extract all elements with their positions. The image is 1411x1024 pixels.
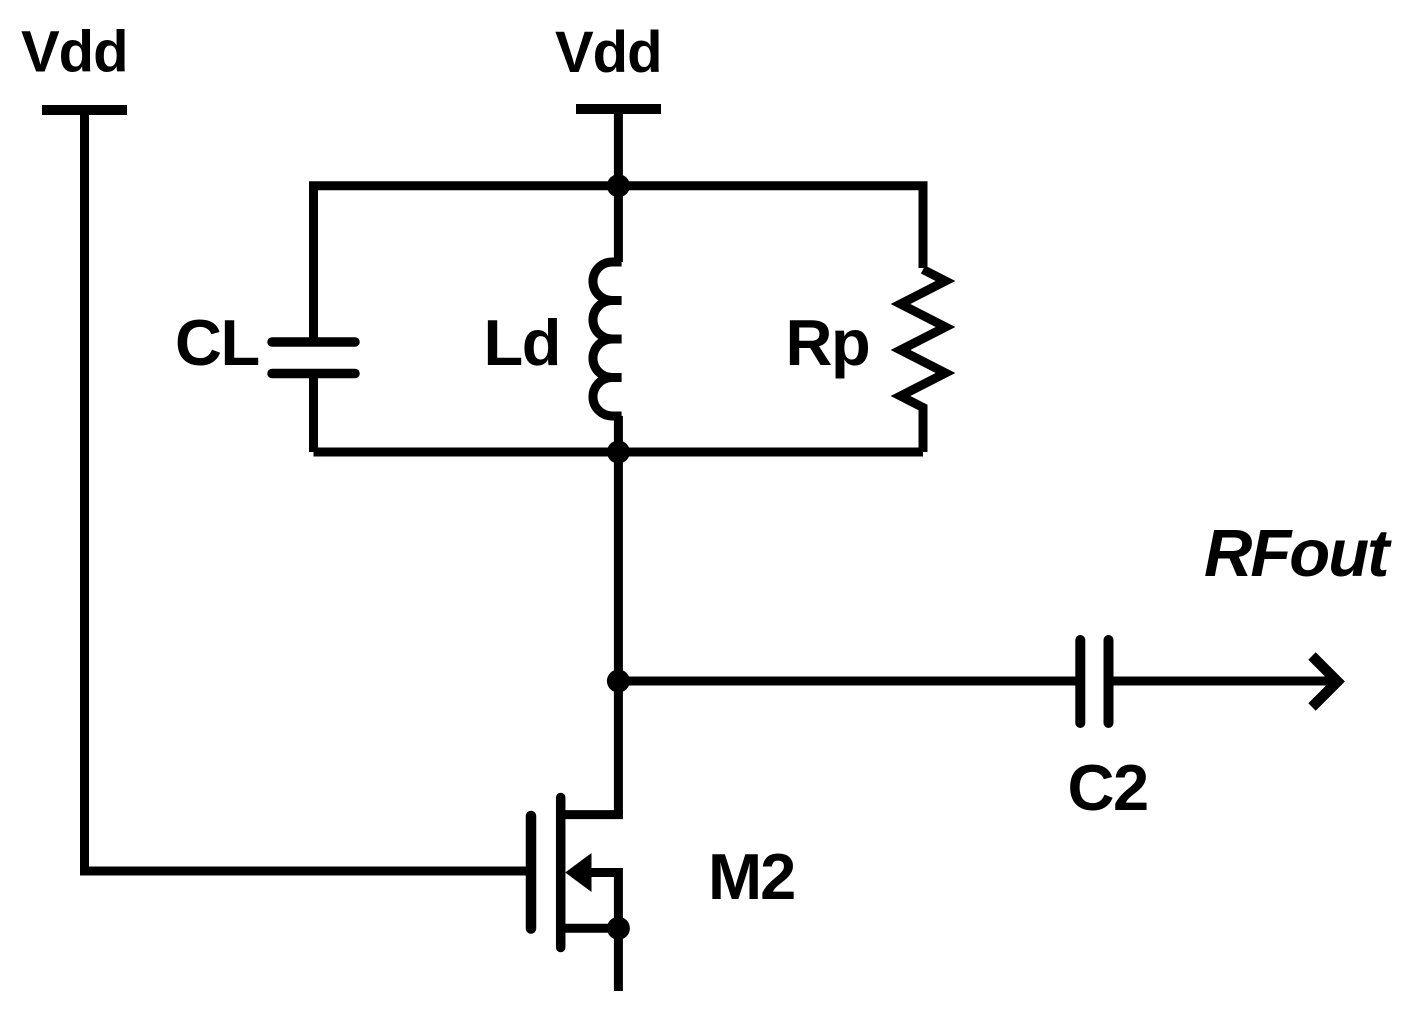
capacitor CL <box>272 342 355 374</box>
svg-text:C2: C2 <box>1068 751 1148 824</box>
power symbol Vdd (left) <box>42 105 127 115</box>
wire (left Vdd rail down to gate) <box>80 110 89 867</box>
svg-text:CL: CL <box>175 306 259 379</box>
node (Vdd / tank top junction) <box>607 174 630 197</box>
bulk lead of M2 <box>589 873 618 929</box>
channel bar of M2 <box>556 798 566 948</box>
capacitor C2 <box>1080 640 1108 723</box>
svg-text:Ld: Ld <box>484 306 560 379</box>
wire (source stub) <box>614 928 623 991</box>
wire (gate lead horizontal) <box>80 867 527 876</box>
svg-text:RFout: RFout <box>1204 516 1392 591</box>
inductor Ld <box>593 262 622 416</box>
arrow (RFout output terminal) <box>1312 656 1338 707</box>
source connection of M2 <box>561 924 619 933</box>
node (tank bottom junction) <box>607 441 630 464</box>
svg-text:Rp: Rp <box>786 306 870 379</box>
svg-text:Vdd: Vdd <box>555 20 662 85</box>
node (source-bulk junction) <box>607 917 630 940</box>
wire (output horizontal to C2) <box>618 677 1075 686</box>
wire (Vdd stub to tank) <box>614 109 623 190</box>
gate bar of M2 <box>526 816 537 929</box>
wire (tank bottom rail) <box>314 448 924 457</box>
transistor M2 <box>531 798 618 948</box>
wire (Ld top lead) <box>614 186 623 262</box>
wire (drain vertical) <box>614 452 623 815</box>
wire (C2 to output arrow) <box>1114 677 1339 686</box>
drain connection of M2 <box>561 810 619 815</box>
wire (CL bottom lead) <box>309 374 318 453</box>
wire (Ld bottom lead) <box>614 416 623 452</box>
svg-text:Vdd: Vdd <box>21 20 128 85</box>
power symbol Vdd (top) <box>576 104 661 114</box>
svg-text:M2: M2 <box>708 840 794 913</box>
resistor Rp <box>901 270 946 453</box>
node (output tap) <box>607 670 630 693</box>
wire (tank top rail) <box>314 186 924 342</box>
bulk arrowhead of M2 <box>565 853 591 892</box>
